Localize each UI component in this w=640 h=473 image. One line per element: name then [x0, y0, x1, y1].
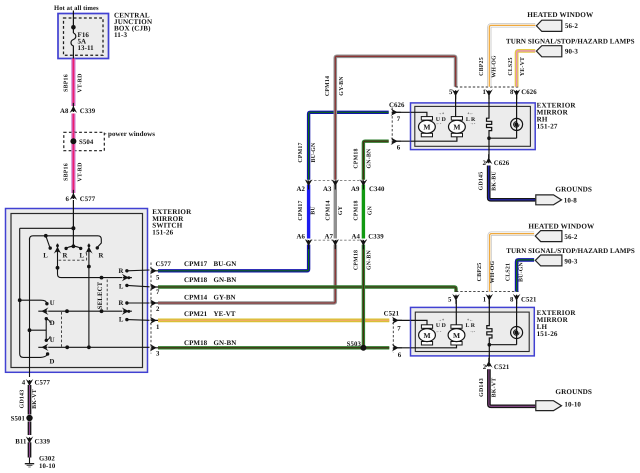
svg-text:90-3: 90-3 — [565, 48, 578, 56]
svg-text:C340: C340 — [369, 186, 385, 193]
svg-text:C626: C626 — [389, 102, 405, 109]
svg-text:M: M — [453, 331, 460, 340]
connector C339 pin A8 — [70, 103, 78, 113]
svg-text:M: M — [423, 123, 430, 132]
svg-text:3: 3 — [156, 351, 160, 358]
svg-text:SBP16: SBP16 — [63, 163, 69, 181]
RH motor U-D M1 — [421, 117, 432, 121]
svg-text:GD143: GD143 — [19, 390, 25, 409]
svg-text:G302: G302 — [39, 456, 55, 463]
wire CPM18 GN-BN from C340 up to C626 pin 6 — [363, 141, 388, 180]
svg-text:←-: ←- — [436, 121, 442, 126]
svg-text:GN-BN: GN-BN — [214, 276, 237, 284]
svg-text:CPM18: CPM18 — [354, 148, 360, 168]
svg-text:4: 4 — [22, 379, 26, 386]
svg-text:CPM18: CPM18 — [184, 276, 208, 284]
svg-text:L: L — [79, 253, 84, 260]
connector C626 top dashed line — [456, 86, 520, 88]
LH heater element — [487, 300, 492, 345]
connector C521 pin 8 arrow — [513, 294, 521, 304]
node on ground rail — [28, 328, 32, 332]
feed center junction and wiper arcs — [72, 244, 76, 248]
node heater bottom LH — [488, 343, 492, 347]
svg-text:CPM18: CPM18 — [354, 200, 360, 220]
node on feed — [71, 226, 75, 230]
contact R outer right — [96, 246, 99, 249]
svg-text:GD143: GD143 — [479, 378, 485, 397]
svg-text:2: 2 — [156, 306, 160, 313]
svg-text:CLS25: CLS25 — [508, 57, 514, 75]
svg-text:1: 1 — [483, 297, 487, 304]
svg-text:CBP25: CBP25 — [477, 263, 483, 282]
svg-text:+←: +← — [467, 317, 474, 322]
contact U1 with feed from rail — [18, 298, 22, 302]
RH inner wire pin6 rail — [411, 137, 457, 141]
svg-text:D: D — [50, 320, 55, 327]
wire CPM17 BU between C339 and C340 — [307, 185, 310, 239]
svg-text:C339: C339 — [80, 108, 96, 115]
svg-text:BK-BU: BK-BU — [491, 171, 497, 191]
connector C577 pin 2 arrow — [150, 299, 160, 307]
svg-text:GN-BN: GN-BN — [366, 249, 372, 270]
wire CPM18 GN-BN pin7 to C521 pin 5 — [158, 287, 456, 292]
splice S504 — [64, 132, 105, 150]
svg-text:A8: A8 — [60, 108, 69, 115]
connector C626 left dashed line — [391, 108, 393, 146]
wire CPM14 GY-BN pin2 to C339 A7 — [158, 245, 335, 303]
svg-text:BU-GN: BU-GN — [214, 260, 237, 268]
svg-text:TURN SIGNAL/STOP/HAZARD LAMPS: TURN SIGNAL/STOP/HAZARD LAMPS — [506, 37, 635, 45]
splice S503 — [360, 345, 366, 351]
svg-text:GN-BN: GN-BN — [366, 148, 372, 169]
svg-text:TURN SIGNAL/STOP/HAZARD LAMPS: TURN SIGNAL/STOP/HAZARD LAMPS — [506, 247, 635, 255]
svg-text:BU-GN: BU-GN — [518, 261, 524, 282]
svg-text:90-3: 90-3 — [564, 258, 577, 266]
svg-text:→+: →+ — [438, 111, 445, 116]
svg-text:C521: C521 — [494, 364, 510, 371]
wire CPM17 BU-GN from C340 up to C626 pin 7 — [309, 112, 389, 180]
svg-text:GROUNDS: GROUNDS — [555, 388, 592, 396]
connector C521 pin 6 arrow — [392, 344, 402, 352]
node motor1 bottom tap — [425, 139, 429, 143]
svg-text:→+: →+ — [438, 317, 445, 322]
svg-text:8: 8 — [510, 89, 514, 96]
connector C577 switch output dashed line — [150, 263, 152, 354]
pole 2 select right — [88, 244, 91, 247]
connector C577 pin 5 arrow — [150, 267, 160, 275]
wire stub pin 5 into motor2 LH — [455, 300, 457, 325]
select dashed linkage — [106, 280, 108, 312]
svg-text:7: 7 — [156, 289, 160, 296]
svg-text:CPM17: CPM17 — [184, 260, 208, 268]
row C line to pin 3 — [48, 346, 149, 348]
splice S501 — [26, 415, 32, 421]
node motor1 bottom tap LH — [425, 346, 429, 350]
connector C626 pin 1 arrow — [485, 89, 493, 99]
exterior mirror RH box — [411, 103, 536, 150]
wire: pole1 to row A — [58, 268, 123, 278]
fixed contact R row B — [125, 301, 128, 304]
svg-text:L: L — [119, 284, 124, 291]
wire: feed branch to left rail — [20, 227, 74, 229]
svg-text:VT-RD: VT-RD — [77, 73, 83, 92]
svg-text:13-11: 13-11 — [78, 44, 95, 52]
row B line — [48, 310, 122, 312]
svg-text:M: M — [423, 331, 430, 340]
svg-text:5: 5 — [448, 297, 452, 304]
svg-text:SELECT: SELECT — [97, 281, 104, 309]
svg-text:GN: GN — [368, 205, 374, 215]
svg-text:151-27: 151-27 — [537, 122, 558, 130]
node on fuse feed — [71, 25, 76, 30]
svg-text:GY-BN: GY-BN — [339, 76, 345, 96]
svg-text:7: 7 — [397, 116, 401, 123]
wire CBP25 WH-OG RH heated window — [489, 25, 535, 86]
wire stub into LH box pin 6 — [398, 345, 457, 348]
wire SBP16 VT-RD segment 1 — [71, 59, 75, 107]
svg-text:GROUNDS: GROUNDS — [555, 186, 592, 194]
connector C577 pin 1 arrow — [150, 317, 160, 325]
svg-text:C577: C577 — [80, 196, 96, 203]
connector C521 top dashed line — [456, 291, 520, 293]
connector C521 pin 1 arrow — [486, 294, 494, 304]
wire: left rail to down contact D2 — [20, 228, 48, 357]
svg-text:6: 6 — [398, 352, 402, 359]
connector C626 pin 7 arrow — [391, 109, 401, 117]
contact L outer left — [49, 246, 52, 249]
connector C577 pin 4 arrow — [26, 379, 34, 389]
svg-text:CLS21: CLS21 — [506, 263, 512, 281]
wire stub into RH box pin 7 — [397, 112, 427, 117]
wire: pole2 down through rows — [88, 267, 90, 348]
fixed contact L row A — [125, 284, 128, 287]
wire GD143 BK-VT switch to S501 — [28, 385, 32, 415]
central junction box CJB — [58, 14, 109, 59]
contact D2 — [46, 352, 49, 355]
left dashed linkage — [61, 312, 63, 347]
svg-text:CPM18: CPM18 — [354, 250, 360, 270]
wire GD145 BK-BU to ground — [489, 166, 536, 200]
svg-text:D: D — [50, 359, 55, 366]
LH motor U-D M1 — [421, 325, 432, 329]
svg-text:CPM14: CPM14 — [325, 200, 331, 220]
connector C577 pin 7 arrow — [150, 283, 160, 291]
wire GD143 BK-VT to ground LH — [489, 369, 535, 406]
wire CLS21 BU-GN LH turn signal — [517, 260, 535, 292]
wire: bar to L outer contact — [46, 236, 50, 247]
svg-text:2: 2 — [483, 160, 487, 167]
svg-text:R: R — [99, 253, 104, 260]
svg-text:CBP25: CBP25 — [479, 57, 485, 76]
svg-text:C521: C521 — [384, 311, 400, 318]
svg-text:CPM14: CPM14 — [325, 76, 331, 96]
connector C577 pin 6 — [70, 190, 78, 200]
connector C340 dashed line — [306, 180, 367, 182]
LH inner wire pin7 to motor1 — [411, 320, 428, 324]
wire stub into RH box pin 6 — [397, 137, 457, 141]
svg-text:YE-VT: YE-VT — [520, 57, 526, 76]
svg-text:GY: GY — [338, 205, 344, 215]
svg-text:Hot at all times: Hot at all times — [54, 5, 99, 12]
svg-text:A3: A3 — [323, 186, 332, 193]
svg-text:U: U — [50, 337, 55, 344]
connector C340 pin A2 arrow — [305, 179, 313, 189]
wire CPM18 GN between C339 and C340 — [362, 185, 365, 239]
svg-text:B11: B11 — [15, 439, 27, 446]
svg-text:+←: +← — [467, 111, 474, 116]
wire into fuse — [72, 11, 74, 34]
RH inner wire pin7 to motor1 — [411, 112, 427, 117]
svg-text:151-26: 151-26 — [537, 330, 558, 338]
wire SBP16 VT-RD segment 3 — [71, 151, 75, 193]
wire heater to lamp bottom — [489, 137, 517, 139]
svg-text:→-: →- — [470, 121, 476, 126]
turn signal stop hazard connector RH — [536, 46, 561, 57]
svg-text:L: L — [43, 253, 48, 260]
svg-text:56-2: 56-2 — [564, 233, 577, 241]
svg-text:A2: A2 — [297, 186, 306, 193]
svg-text:C521: C521 — [521, 297, 537, 304]
svg-text:11-3: 11-3 — [114, 31, 128, 39]
select linkage dashed top — [59, 252, 87, 260]
pole 1 select left — [56, 244, 59, 247]
svg-text:C577: C577 — [35, 379, 51, 386]
svg-text:WH-OG: WH-OG — [492, 55, 498, 78]
wire CPM14 GY-BN from C340 up across top to C626 pin 5 — [335, 56, 455, 180]
svg-text:power windows: power windows — [108, 130, 155, 138]
wire: ground rail down to pin 4 — [29, 238, 31, 377]
LH lamp — [516, 300, 518, 345]
exterior mirror switch box — [6, 209, 148, 373]
svg-text:CPM17: CPM17 — [298, 200, 304, 220]
wire CPM18 GN-BN pin3 to C521 pin 6 — [158, 346, 389, 349]
svg-text:S503: S503 — [347, 341, 362, 348]
LH inner wire pin6 rail — [411, 345, 457, 348]
contact L center-right — [79, 247, 82, 250]
RH heater element — [487, 95, 492, 138]
connector C339 pin A4 arrow — [360, 239, 368, 249]
wire pin 2 down from heater node LH — [488, 345, 490, 362]
contact U2 — [45, 339, 48, 342]
svg-text:C577: C577 — [156, 261, 172, 268]
svg-text:←-: ←- — [436, 328, 442, 333]
RH motor L-R M2 — [451, 117, 462, 121]
node heater bottom — [487, 136, 491, 140]
connector C577 pin 3 arrow — [150, 344, 160, 352]
svg-text:VT-RD: VT-RD — [77, 162, 83, 181]
wire stub into LH box pin 7 — [398, 320, 427, 324]
svg-text:A7: A7 — [325, 233, 334, 240]
turn signal stop hazard connector LH — [535, 255, 562, 266]
svg-text:→-: →- — [469, 328, 475, 333]
connector C339 pin A7 arrow — [332, 239, 340, 249]
wire: branch to D1 U2 contacts — [30, 319, 47, 340]
svg-text:GD145: GD145 — [479, 172, 485, 191]
heated window connector RH — [536, 20, 561, 31]
svg-text:6: 6 — [397, 145, 401, 152]
svg-text:BK-VT: BK-VT — [492, 378, 498, 398]
svg-text:HEATED WINDOW: HEATED WINDOW — [527, 11, 594, 19]
connector C626 pin 2 arrow — [485, 154, 493, 164]
LH motor L-R M2 — [451, 325, 462, 329]
fuse F16 element — [71, 33, 76, 59]
connector C340 pin A3 arrow — [332, 179, 340, 189]
wire CPM18 GN-BN vertical S503 up to C339 A4 — [362, 245, 365, 348]
svg-text:GY-BN: GY-BN — [214, 294, 236, 302]
svg-text:1: 1 — [156, 324, 160, 331]
ground G302 symbol — [29, 458, 31, 464]
svg-text:C339: C339 — [368, 233, 384, 240]
svg-text:CPM18: CPM18 — [184, 339, 208, 347]
node on bar — [44, 234, 48, 238]
grounds connector 10-8 — [536, 195, 562, 205]
wire: ground bar with corners — [30, 236, 102, 247]
svg-text:A4: A4 — [352, 233, 361, 240]
RH lamp — [516, 95, 518, 138]
row A select arrow right — [122, 274, 132, 282]
svg-text:7: 7 — [397, 325, 401, 332]
svg-text:6: 6 — [66, 196, 70, 203]
svg-text:YE-VT: YE-VT — [214, 310, 236, 318]
connector C340 pin A9 arrow — [360, 179, 368, 189]
wire SBP16 VT-RD segment 2 — [71, 114, 75, 133]
svg-text:10-10: 10-10 — [39, 463, 56, 470]
fixed contact L row B — [125, 318, 128, 321]
wire C339 to ground G302 — [28, 442, 32, 457]
svg-text:GN-BN: GN-BN — [214, 339, 237, 347]
svg-text:L: L — [119, 317, 124, 324]
connector C521 pin 5 arrow — [452, 294, 460, 304]
connector C339 middle dashed line — [306, 239, 367, 241]
svg-text:C626: C626 — [521, 89, 537, 96]
wire CBP25 WH-OG LH heated window — [490, 234, 534, 292]
connector C626 pin 8 arrow — [513, 89, 521, 99]
wire heater to lamp bottom LH — [489, 344, 516, 346]
svg-text:S504: S504 — [79, 139, 94, 146]
svg-text:A9: A9 — [351, 186, 360, 193]
svg-text:151-26: 151-26 — [152, 228, 173, 236]
svg-text:R: R — [118, 300, 123, 307]
svg-text:10-10: 10-10 — [564, 401, 581, 409]
heated window connector LH — [535, 231, 562, 242]
svg-text:SBP16: SBP16 — [63, 74, 69, 92]
svg-text:CPM21: CPM21 — [184, 310, 208, 318]
wire stub pin 5 into motor2 — [455, 95, 457, 117]
connector C626 pin 5 arrow — [452, 89, 460, 99]
svg-text:BK-VT: BK-VT — [32, 389, 38, 409]
svg-text:M: M — [453, 123, 460, 132]
svg-text:CPM17: CPM17 — [298, 142, 304, 162]
exterior mirror LH box — [411, 307, 535, 356]
svg-text:56-2: 56-2 — [565, 22, 578, 30]
svg-text:CPM14: CPM14 — [184, 294, 208, 302]
svg-text:S501: S501 — [11, 415, 26, 422]
svg-text:2: 2 — [483, 364, 487, 371]
svg-text:BU-GN: BU-GN — [311, 142, 317, 163]
connector C339 pin B11 arrow — [26, 436, 34, 446]
connector C521 left dashed line — [392, 314, 394, 353]
wire CPM21 YE-VT pin1 to C521 pin 7 — [158, 318, 389, 322]
svg-text:8: 8 — [510, 297, 514, 304]
wire CLS25 YE-VT RH turn signal — [517, 51, 536, 87]
svg-text:C339: C339 — [35, 439, 51, 446]
connector C521 pin 7 arrow — [392, 317, 402, 325]
svg-text:R: R — [118, 268, 123, 275]
svg-text:5: 5 — [156, 274, 160, 281]
grounds connector 10-10 — [536, 401, 562, 411]
contact D1 — [45, 317, 48, 320]
svg-text:1: 1 — [483, 89, 487, 96]
wire CPM17 BU-GN pin5 to C339 A6 — [158, 245, 309, 271]
svg-text:5: 5 — [449, 89, 453, 96]
fixed contact R row A — [125, 269, 128, 272]
connector C339 pin A6 arrow — [305, 239, 313, 249]
svg-text:A6: A6 — [297, 233, 306, 240]
wire CPM14 GY between C339 and C340 — [334, 185, 337, 239]
svg-text:10-8: 10-8 — [564, 197, 577, 205]
svg-text:BU: BU — [311, 206, 317, 215]
svg-text:R: R — [62, 253, 67, 260]
connector C626 pin 6 arrow — [391, 137, 401, 145]
svg-text:U: U — [50, 300, 55, 307]
svg-text:WH-OG: WH-OG — [490, 260, 496, 283]
wire pin 2 down from heater node — [488, 138, 490, 158]
wire S501 to C339 B11 — [28, 422, 32, 436]
svg-text:HEATED WINDOW: HEATED WINDOW — [528, 222, 595, 230]
switch feed wire from pin 6 — [72, 200, 74, 246]
connector C521 pin 2 arrow — [485, 358, 493, 368]
contact R center-left — [64, 247, 67, 250]
svg-text:C626: C626 — [494, 160, 510, 167]
